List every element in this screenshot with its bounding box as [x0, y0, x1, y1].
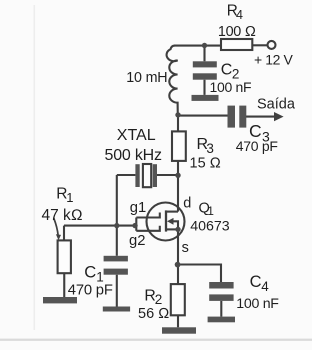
svg-text:100 nF: 100 nF — [210, 79, 252, 95]
svg-text:3: 3 — [206, 141, 214, 156]
svg-text:g1: g1 — [130, 200, 146, 216]
svg-text:500 kHz: 500 kHz — [105, 147, 162, 164]
svg-text:g2: g2 — [129, 233, 145, 249]
svg-text:d: d — [183, 195, 191, 211]
svg-text:47 kΩ: 47 kΩ — [42, 207, 83, 224]
svg-text:s: s — [182, 240, 189, 256]
svg-text:1: 1 — [66, 190, 73, 205]
svg-text:4: 4 — [261, 279, 269, 294]
svg-text:2: 2 — [155, 292, 163, 307]
svg-text:C: C — [84, 263, 96, 282]
svg-text:10 mH: 10 mH — [126, 70, 167, 86]
svg-text:+ 12 V: + 12 V — [254, 52, 294, 68]
svg-text:40673: 40673 — [190, 218, 230, 234]
svg-text:C: C — [221, 62, 233, 79]
svg-text:XTAL: XTAL — [117, 127, 156, 144]
svg-text:470 pF: 470 pF — [236, 138, 278, 154]
svg-text:470 pF: 470 pF — [68, 282, 113, 298]
svg-text:Saída: Saída — [257, 96, 296, 112]
svg-text:15 Ω: 15 Ω — [190, 155, 221, 171]
svg-text:100 nF: 100 nF — [236, 296, 279, 312]
svg-text:4: 4 — [236, 8, 243, 22]
svg-text:C: C — [250, 273, 262, 291]
svg-text:1: 1 — [207, 204, 214, 218]
svg-text:100 Ω: 100 Ω — [218, 24, 256, 40]
svg-text:56 Ω: 56 Ω — [138, 306, 169, 322]
